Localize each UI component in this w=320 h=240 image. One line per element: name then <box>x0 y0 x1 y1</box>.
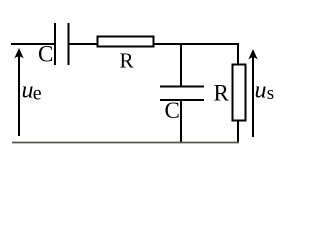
svg-text:u: u <box>255 78 267 104</box>
svg-text:s: s <box>267 83 274 104</box>
svg-text:C: C <box>165 98 180 123</box>
svg-text:C: C <box>38 42 53 67</box>
svg-text:u: u <box>22 78 34 104</box>
svg-text:R: R <box>120 49 134 73</box>
svg-text:e: e <box>33 83 42 105</box>
svg-text:R: R <box>214 81 230 106</box>
